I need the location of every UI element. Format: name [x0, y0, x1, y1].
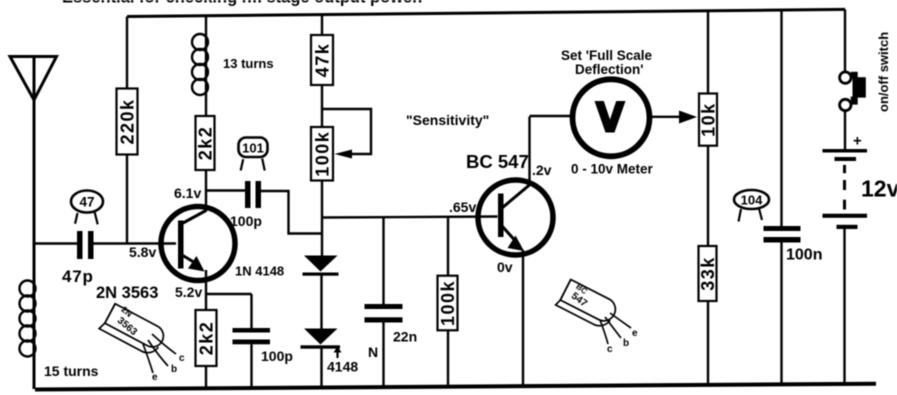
svg-text:b: b — [623, 338, 629, 349]
svg-text:e: e — [152, 372, 158, 383]
svg-text:100p: 100p — [230, 213, 262, 229]
svg-text:100k: 100k — [438, 280, 458, 326]
svg-text:2k2: 2k2 — [197, 321, 217, 356]
svg-text:on/off switch: on/off switch — [876, 32, 891, 112]
svg-text:2k2: 2k2 — [196, 126, 216, 161]
svg-text:2N 3563: 2N 3563 — [96, 284, 158, 302]
svg-text:12v: 12v — [861, 176, 897, 202]
svg-text:1N 4148: 1N 4148 — [235, 264, 284, 279]
svg-text:47p: 47p — [62, 267, 94, 286]
svg-text:N: N — [368, 344, 378, 360]
svg-text:Deflection': Deflection' — [575, 62, 643, 77]
svg-text:5.8v: 5.8v — [129, 244, 156, 260]
svg-text:0v: 0v — [497, 259, 513, 275]
svg-text:104: 104 — [741, 193, 763, 208]
svg-text:10k: 10k — [699, 102, 719, 137]
svg-text:.2v: .2v — [532, 162, 552, 178]
svg-text:33k: 33k — [698, 256, 718, 291]
svg-text:c: c — [607, 344, 613, 355]
svg-text:100n: 100n — [786, 247, 822, 264]
svg-text:100p: 100p — [261, 348, 293, 364]
svg-text:e: e — [632, 328, 638, 339]
svg-text:15 turns: 15 turns — [44, 363, 99, 379]
svg-text:Set 'Full Scale: Set 'Full Scale — [561, 48, 652, 63]
svg-text:220k: 220k — [118, 98, 138, 144]
svg-text:5.2v: 5.2v — [175, 284, 202, 300]
svg-text:4148: 4148 — [327, 359, 358, 375]
svg-text:"Sensitivity": "Sensitivity" — [406, 112, 489, 128]
svg-text:47: 47 — [79, 195, 94, 210]
svg-text:47k: 47k — [313, 43, 333, 78]
svg-text:6.1v: 6.1v — [174, 185, 201, 201]
svg-text:c: c — [179, 353, 185, 364]
svg-text:0 - 10v Meter: 0 - 10v Meter — [571, 162, 654, 177]
svg-text:Essential for checking r.f. st: Essential for checking r.f. stage output… — [62, 0, 422, 6]
svg-text:22n: 22n — [393, 329, 417, 345]
svg-text:.65v: .65v — [449, 199, 476, 215]
svg-text:13 turns: 13 turns — [223, 56, 274, 71]
svg-text:BC 547: BC 547 — [466, 151, 529, 172]
svg-text:b: b — [171, 364, 177, 375]
svg-text:+: + — [853, 133, 862, 150]
svg-text:101: 101 — [242, 141, 264, 156]
svg-text:100k: 100k — [313, 131, 333, 177]
